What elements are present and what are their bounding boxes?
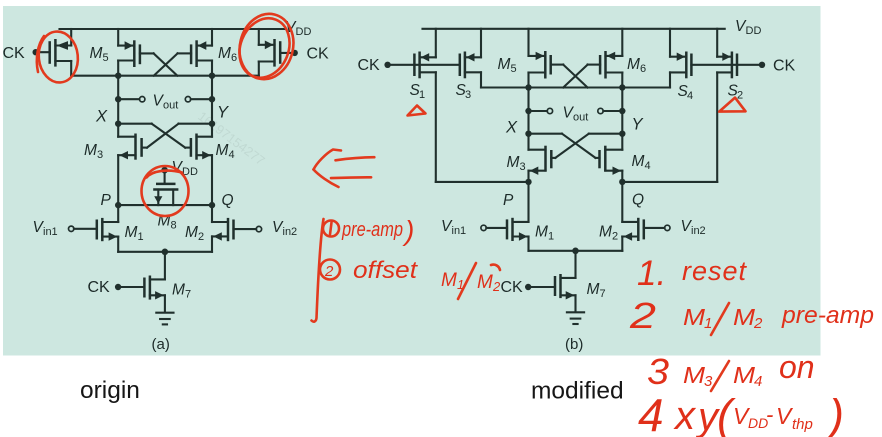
node tail dot (b)	[572, 248, 579, 255]
svg-text:2: 2	[324, 263, 334, 280]
svg-text:M: M	[683, 304, 706, 330]
svg-text:pre-amp: pre-amp	[341, 218, 403, 241]
wire diagonal X to M4 gate (b)	[562, 134, 596, 158]
svg-text:X: X	[95, 108, 108, 126]
svg-text:M: M	[84, 142, 97, 159]
svg-text:thp: thp	[792, 416, 813, 433]
svg-text:in2: in2	[283, 226, 298, 238]
svg-text:3: 3	[97, 149, 103, 161]
slide teal background	[3, 6, 821, 356]
red long vertical stroke	[312, 219, 324, 322]
red double-line left arrow	[314, 150, 375, 188]
svg-text:6: 6	[231, 52, 237, 64]
label S2	[728, 83, 744, 102]
red list item 2 M1/M2 pre-amp	[629, 295, 874, 336]
svg-text:Q: Q	[632, 192, 644, 209]
svg-text:M: M	[733, 304, 756, 330]
svg-text:CK: CK	[88, 279, 111, 296]
svg-text:CK: CK	[501, 279, 524, 296]
svg-text:CK: CK	[3, 45, 26, 62]
svg-text:M: M	[507, 154, 520, 171]
wire CK to S1 and S3 gates	[388, 64, 460, 66]
transistor M3 (b)	[529, 134, 552, 182]
wire M2 gate to Vin2 (a)	[234, 228, 257, 230]
svg-text:M: M	[683, 362, 706, 388]
label M2 (b)	[599, 224, 618, 243]
transistor S1	[414, 29, 435, 79]
label VDD at M8	[172, 159, 198, 178]
wire M2 gate to Vin2 (b)	[644, 227, 665, 229]
label M6 (b)	[627, 56, 646, 75]
label Vout (a)	[153, 93, 179, 112]
label M4 (b)	[632, 153, 651, 172]
svg-text:): )	[824, 390, 844, 437]
red circle around right clock PMOS and VDD (a)	[231, 8, 300, 85]
svg-text:(a): (a)	[152, 336, 170, 353]
svg-text:in1: in1	[43, 226, 58, 238]
node P dot (a)	[115, 202, 121, 208]
wire Y stub to cross (a)	[179, 123, 213, 125]
label Vin1 (a)	[33, 219, 58, 238]
svg-text:pre-amp: pre-amp	[781, 302, 874, 329]
transistor S3	[460, 29, 481, 79]
transistor M3 (a)	[118, 124, 141, 205]
transistor M8 (a)	[153, 170, 178, 205]
red note M1/M2 (middle)	[441, 263, 501, 299]
Vout left terminal circle (b)	[547, 108, 552, 113]
red triangle under S1	[408, 106, 426, 116]
wire left column X (b)	[527, 88, 529, 134]
label M7 (b)	[587, 281, 606, 300]
svg-text:x: x	[673, 394, 697, 437]
transistor M7 (b)	[555, 274, 576, 311]
label M7 (a)	[172, 282, 191, 301]
wire Vin1 to M1 gate (a)	[74, 228, 97, 230]
Vout right terminal circle (b)	[598, 108, 603, 113]
wire right column Y (b)	[621, 88, 623, 134]
svg-text:DD: DD	[746, 25, 762, 37]
transistor M6 (b)	[588, 29, 623, 88]
wire CK to M7 gate (b)	[528, 286, 555, 288]
wire P to Q (a)	[118, 204, 212, 206]
node Vout left dot (b)	[525, 108, 531, 114]
svg-text:5: 5	[511, 63, 517, 75]
label M3 (b)	[507, 154, 526, 173]
svg-text:7: 7	[185, 289, 191, 301]
svg-text:M: M	[733, 362, 756, 388]
node CK dot (b) left	[384, 62, 390, 68]
node X dot (b)	[525, 131, 531, 137]
svg-text:X: X	[505, 119, 518, 137]
wire right column Y (a)	[211, 76, 213, 124]
svg-text:3: 3	[465, 89, 471, 101]
svg-text:M: M	[587, 281, 600, 298]
node junction dot right (b)	[619, 84, 625, 90]
VDD rail (a)	[60, 28, 286, 30]
svg-text:M: M	[599, 224, 612, 241]
node CK dot (a) left	[33, 49, 39, 55]
svg-text:4: 4	[645, 160, 651, 172]
wire cross-couple diagonal M6 gate to left column (b)	[563, 65, 587, 88]
node X dot (a)	[115, 121, 121, 127]
svg-text:M: M	[632, 153, 645, 170]
svg-text:(b): (b)	[565, 336, 583, 353]
transistor M5 (a)	[118, 29, 153, 76]
svg-text:M: M	[185, 224, 198, 241]
transistor M4 (b)	[600, 134, 623, 182]
label M8 (a)	[158, 213, 177, 232]
wire X stub to cross (b)	[529, 133, 563, 135]
transistor M1 (b)	[507, 182, 529, 251]
node VDD dot of M8	[161, 167, 168, 174]
wire CK to gate of left clock PMOS	[36, 51, 50, 53]
wire tail row (b)	[529, 250, 623, 252]
svg-text:7: 7	[600, 288, 606, 300]
red circle around M8 (a)	[142, 166, 189, 216]
svg-text:-: -	[766, 402, 773, 427]
wire left column X (a)	[117, 76, 119, 124]
svg-text:modified: modified	[531, 378, 624, 405]
node CK dot at M7 (b)	[525, 284, 531, 290]
svg-text:CK: CK	[773, 58, 796, 75]
svg-text:out: out	[163, 100, 178, 112]
svg-text:M: M	[441, 270, 457, 291]
Vout right terminal circle	[185, 97, 190, 102]
svg-text:2: 2	[629, 295, 656, 336]
wire S3 drain down to junction row	[480, 72, 482, 87]
svg-text:P: P	[503, 192, 514, 209]
svg-text:M: M	[172, 282, 185, 299]
wire CK to M7 gate (a)	[118, 286, 144, 288]
label S4	[678, 83, 694, 102]
wire Y stub to cross (b)	[589, 133, 623, 135]
node Vout left dot (a)	[115, 96, 121, 102]
red circled 1	[323, 221, 339, 237]
svg-text:1: 1	[548, 231, 554, 243]
svg-text:4: 4	[229, 149, 235, 161]
node Q dot (a)	[209, 202, 215, 208]
red list item 1 reset	[637, 254, 748, 293]
svg-text:2: 2	[492, 279, 501, 294]
svg-text:M: M	[218, 45, 231, 62]
wire S4 drain down to junction row	[669, 72, 671, 87]
label VDD (b)	[735, 18, 761, 37]
svg-text:origin: origin	[80, 377, 140, 404]
svg-text:1.: 1.	[637, 254, 666, 293]
svg-text:Y: Y	[217, 104, 229, 122]
node CK dot at M7 (a)	[115, 284, 121, 290]
svg-text:4: 4	[638, 389, 664, 437]
wire S2 drain down to Q row	[716, 72, 718, 181]
svg-text:6: 6	[640, 63, 646, 75]
node P dot (b)	[525, 179, 531, 185]
wire to Vout left terminal	[118, 98, 139, 100]
svg-text:CK: CK	[307, 46, 330, 63]
svg-text:3: 3	[520, 161, 526, 173]
node Vout right dot (a)	[209, 96, 215, 102]
svg-text:2: 2	[198, 231, 204, 243]
wire gate of right clock PMOS to CK dot	[280, 52, 294, 54]
label M4 (a)	[216, 142, 235, 161]
svg-text:out: out	[573, 112, 588, 124]
transistor left clock PMOS (a)	[50, 29, 71, 76]
red list item 3 M3/M4 on	[647, 349, 815, 392]
node Y dot (a)	[209, 121, 215, 127]
svg-text:1: 1	[138, 231, 144, 243]
svg-text:DD: DD	[296, 26, 312, 38]
wire cross-couple diagonal M5 gate to right column (b)	[563, 65, 587, 88]
svg-text:2: 2	[753, 315, 763, 332]
label VDD (a) top	[285, 19, 311, 38]
svg-text:in2: in2	[691, 225, 706, 237]
svg-text:2: 2	[612, 231, 618, 243]
wire S1 drain down to P row	[435, 72, 437, 182]
transistor M2 (b)	[622, 182, 644, 251]
wire drain junction row (a)	[71, 75, 259, 77]
wire S4 and S2 gates to CK (b) right	[691, 64, 762, 66]
label S1	[410, 82, 426, 101]
node CK dot (a) right	[292, 50, 298, 56]
wire diagonal Y to M3 gate (b)	[555, 134, 589, 158]
node Q dot (b)	[619, 179, 625, 185]
VDD rail (b)	[423, 28, 725, 30]
transistor M6 (a)	[178, 29, 212, 76]
Vin1 terminal circle (a)	[69, 226, 74, 231]
ground symbol (b)	[567, 312, 584, 324]
wire stub into M4 gate (a)	[185, 147, 191, 149]
wire S1 to node P (b)	[436, 181, 529, 183]
wire stub into M3 gate (a)	[142, 147, 147, 149]
svg-text:in1: in1	[452, 225, 467, 237]
label M5 (b)	[498, 56, 517, 75]
svg-text:offset: offset	[353, 257, 418, 284]
wire drain junction row (b)	[481, 86, 670, 88]
wire cross-couple diagonal M5 gate to right column	[154, 53, 178, 75]
wire to Vout left terminal (b)	[529, 110, 548, 112]
wire tail to M7 (b)	[574, 251, 576, 278]
wire diagonal Y to M3 gate (a)	[147, 124, 179, 148]
label M3 (a)	[84, 142, 103, 161]
node junction dot left (a)	[115, 73, 121, 79]
svg-text:M: M	[216, 142, 229, 159]
node Vout right dot (b)	[619, 108, 625, 114]
svg-text:Y: Y	[632, 116, 644, 134]
svg-text:M: M	[498, 56, 511, 73]
transistor M1 (a)	[97, 205, 118, 252]
label M5 (a)	[90, 45, 109, 64]
label Vin2 (a)	[272, 219, 297, 238]
ground symbol (a)	[156, 313, 173, 325]
red tick near CK (b)	[491, 265, 500, 270]
svg-text:Q: Q	[222, 192, 234, 209]
label Vin2 (b)	[681, 218, 706, 237]
wire diagonal X to M4 gate (a)	[152, 124, 186, 148]
node tail dot (a)	[162, 249, 169, 256]
Vin2 terminal circle (a)	[256, 226, 261, 231]
svg-text:8: 8	[171, 220, 177, 232]
wire cross-couple diagonal M6 gate to left column	[154, 53, 178, 75]
wire X stub to cross (a)	[118, 123, 152, 125]
svg-text:CK: CK	[358, 57, 381, 74]
node junction dot left (b)	[525, 84, 531, 90]
svg-text:M: M	[125, 224, 138, 241]
transistor M5 (b)	[529, 29, 564, 88]
svg-text:reset: reset	[682, 256, 748, 286]
label M1 (a)	[125, 224, 144, 243]
svg-text:M: M	[535, 224, 548, 241]
wire to Vout right terminal	[191, 98, 212, 100]
Vout left terminal circle	[140, 97, 145, 102]
wire Vin1 to M1 gate (b)	[486, 227, 507, 229]
red circled 2	[320, 260, 340, 281]
red circle around left clock PMOS (a)	[36, 30, 80, 85]
Vin1 terminal circle (b)	[481, 225, 486, 230]
svg-text:5: 5	[103, 52, 109, 64]
svg-text:P: P	[101, 192, 112, 209]
label M2 (a)	[185, 224, 204, 243]
wire S2 to node Q (b)	[622, 181, 717, 183]
label M1 (b)	[535, 224, 554, 243]
wire stub into M4 gate (b)	[596, 157, 600, 159]
svg-text:4: 4	[754, 373, 762, 390]
svg-text:M: M	[627, 56, 640, 73]
wire stub into M3 gate (b)	[551, 157, 555, 159]
node junction dot right (a)	[209, 73, 215, 79]
red triangle under S2	[719, 98, 745, 112]
svg-text:M: M	[90, 45, 103, 62]
transistor M7 (a)	[144, 276, 165, 312]
wire tail to M7 (a)	[164, 252, 166, 280]
label Vin1 (b)	[441, 218, 466, 237]
svg-text:1: 1	[704, 315, 712, 332]
transistor M2 (a)	[212, 205, 234, 252]
transistor right clock PMOS (a)	[259, 29, 280, 76]
svg-text:1: 1	[419, 89, 425, 101]
wire to Vout right terminal (b)	[603, 110, 622, 112]
svg-text:4: 4	[687, 90, 693, 102]
svg-text:3: 3	[647, 351, 669, 392]
label S3	[456, 82, 472, 101]
svg-text:on: on	[779, 349, 815, 385]
Vin2 terminal circle (b)	[665, 225, 670, 230]
label Vout (b)	[563, 105, 589, 124]
red list item 4 XY(VDD-Vthp)	[638, 389, 844, 437]
transistor S4	[670, 29, 691, 79]
wire tail row (a)	[118, 251, 212, 253]
transistor S2	[717, 29, 737, 79]
label M6 (a)	[218, 45, 237, 64]
svg-text:M: M	[477, 272, 493, 293]
node Y dot (b)	[619, 131, 625, 137]
node CK dot (b) right	[759, 62, 765, 68]
transistor M4 (a)	[191, 124, 212, 205]
